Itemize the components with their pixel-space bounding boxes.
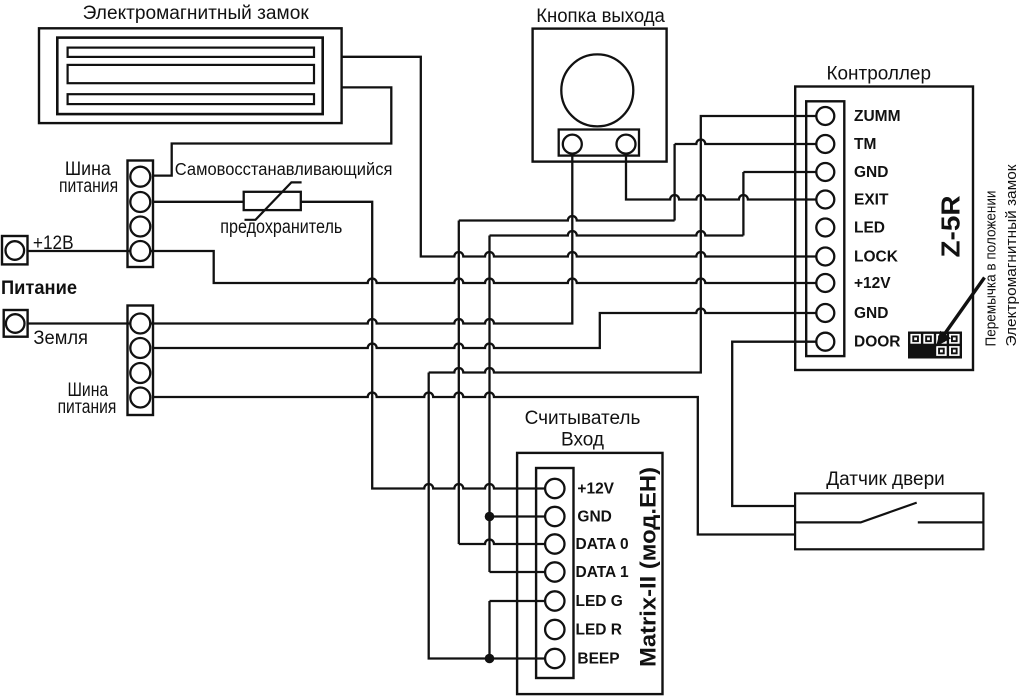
wire ZUMM to reader BEEP horizontal run: [429, 116, 825, 373]
wire reader LED G terminal row: [490, 600, 555, 602]
reader terminal DATA0 pin circle: [545, 534, 564, 553]
exit button SB1 box: [533, 29, 667, 162]
reader terminal LED G pin circle: [545, 591, 564, 610]
svg-text:Питание: Питание: [1, 278, 77, 299]
junction dot LED G/BEEP node: [485, 654, 495, 664]
controller terminal LED pin circle: [816, 219, 834, 237]
svg-text:Земля: Земля: [33, 328, 88, 349]
wire TM link vertical: [673, 144, 675, 221]
svg-text:BEEP: BEEP: [577, 651, 619, 668]
power strip 1 pin 2 circle: [130, 192, 150, 212]
wire TM feed row from DATA0: [459, 216, 675, 221]
electromagnetic lock Y1 coil bar 2: [68, 65, 314, 83]
svg-text:Z-5R: Z-5R: [936, 195, 966, 257]
controller terminal ZUMM pin circle: [816, 107, 834, 125]
wire GND upper link vertical: [742, 172, 744, 236]
wire DATA0 vertical: [458, 221, 460, 545]
+12V supply terminal square: [2, 236, 28, 264]
svg-text:Кнопка выхода: Кнопка выхода: [536, 6, 665, 27]
svg-text:предохранитель: предохранитель: [220, 217, 342, 238]
svg-text:TM: TM: [854, 136, 876, 153]
svg-text:DATA 1: DATA 1: [576, 564, 629, 581]
reader terminal LED R pin circle: [545, 620, 564, 639]
controller terminal GND pin circle: [816, 163, 834, 181]
fuse F1 self-resetting body: [244, 192, 301, 210]
svg-text:+12В: +12В: [33, 233, 74, 254]
controller terminal TM pin circle: [816, 135, 834, 153]
electromagnetic lock Y1 outer box: [39, 28, 342, 123]
reader terminal DATA1 pin circle: [545, 562, 564, 581]
ground supply pin circle: [6, 314, 25, 333]
jumper position arrow: [944, 278, 985, 336]
svg-text:Считыватель: Считыватель: [525, 408, 641, 429]
svg-text:Вход: Вход: [561, 430, 604, 451]
wire +12V supply through strip 1 pin 4 to controller +12V: [28, 251, 826, 283]
electromagnetic lock Y1 inner frame: [57, 38, 322, 115]
power strip 2 pin 3 circle: [130, 363, 150, 383]
wire power bus strip 1 pin 2 to fuse input: [153, 201, 244, 203]
svg-text:GND: GND: [854, 164, 888, 181]
svg-text:Датчик двери: Датчик двери: [826, 469, 945, 490]
wire ground bus line 1 to exit button left contact: [28, 144, 573, 323]
wire exit button right contact to EXIT terminal: [626, 144, 825, 199]
svg-text:питания: питания: [59, 176, 118, 197]
exit button SB1 actuator circle: [561, 54, 633, 126]
wire DATA1 terminal row: [490, 571, 555, 573]
svg-text:Matrix-II (мод.EH): Matrix-II (мод.EH): [636, 467, 661, 667]
svg-text:DOOR: DOOR: [854, 334, 901, 351]
reader terminal GND pin circle: [545, 507, 564, 526]
svg-text:Контроллер: Контроллер: [827, 64, 932, 85]
electromagnetic lock Y1 coil bar 3: [68, 94, 314, 104]
svg-text:EXIT: EXIT: [854, 192, 889, 209]
wire lock coil B to power bus strip 1 pin 1: [152, 87, 391, 175]
svg-text:Перемычка в положении: Перемычка в положении: [983, 191, 1000, 347]
svg-text:+12V: +12V: [854, 275, 891, 292]
svg-text:DATA 0: DATA 0: [576, 536, 629, 553]
power strip 2 pin 2 circle: [130, 338, 150, 358]
power bus terminal strip 2: [128, 306, 154, 416]
power strip 2 pin 4 circle: [130, 388, 150, 408]
svg-text:LED R: LED R: [576, 622, 623, 639]
wire LED G drop to BEEP row: [488, 601, 490, 659]
electromagnetic lock Y1 coil bar 1: [68, 48, 314, 57]
svg-text:LED G: LED G: [576, 593, 623, 610]
controller terminal GND2 pin circle: [816, 304, 834, 322]
wire ground bus line 4 to door sensor lower lead: [153, 393, 795, 535]
svg-text:+12V: +12V: [577, 481, 614, 498]
wire GND vertical to reader: [488, 236, 490, 573]
reader terminal strip rectangle: [536, 468, 573, 678]
wire ZUMM drop to BEEP terminal: [429, 373, 555, 659]
wire reader GND terminal row: [490, 515, 555, 517]
power strip 1 pin 1 circle: [130, 167, 150, 187]
fuse F1 diagonal stroke: [245, 182, 302, 219]
door sensor SM1 box: [795, 493, 983, 549]
jumper position arrowhead: [936, 331, 951, 347]
svg-text:ZUMM: ZUMM: [854, 108, 901, 125]
exit button left contact circle: [563, 135, 582, 154]
svg-text:Самовосстанавливающийся: Самовосстанавливающийся: [175, 159, 393, 179]
jumper block bottom row open cells: [936, 346, 947, 356]
junction dot GND/DATA1 node: [485, 512, 495, 522]
power strip 1 pin 4 circle: [130, 241, 150, 261]
power bus terminal strip 1: [128, 161, 154, 268]
jumper block pin holes: [914, 337, 956, 352]
svg-text:Электромагнитный замок: Электромагнитный замок: [1003, 164, 1020, 346]
ground supply terminal square: [4, 310, 28, 337]
reader terminal +12V pin circle: [545, 479, 564, 498]
power strip 1 pin 3 circle: [130, 217, 150, 237]
controller terminal LOCK pin circle: [816, 248, 834, 266]
svg-text:Электромагнитный замок: Электромагнитный замок: [83, 3, 310, 24]
+12V supply pin circle: [6, 241, 25, 260]
wire ground bus line 2 to controller GND lower: [153, 309, 825, 349]
exit button SB1 contact block: [559, 130, 639, 156]
wire controller GND upper terminal row: [743, 171, 825, 173]
wire GND feed row: [490, 231, 744, 236]
svg-text:GND: GND: [577, 509, 611, 526]
controller terminal strip rectangle: [806, 101, 844, 356]
svg-text:LED: LED: [854, 220, 885, 237]
jumper block pin squares: [912, 336, 957, 355]
exit button right contact circle: [617, 135, 636, 154]
controller terminal +12V pin circle: [816, 274, 834, 292]
jumper block top row open cells: [910, 334, 959, 356]
wire DOOR terminal to door sensor upper lead: [732, 342, 825, 506]
wire fuse output to reader +12V: [301, 202, 555, 489]
svg-text:LOCK: LOCK: [854, 249, 899, 266]
wire lock coil A to LOCK terminal: [342, 57, 825, 257]
reader terminal BEEP pin circle: [545, 649, 564, 668]
svg-text:GND: GND: [854, 305, 888, 322]
controller terminal EXIT pin circle: [816, 191, 834, 209]
reader Matrix-II box: [517, 453, 662, 694]
door sensor reed switch contact: [795, 503, 983, 523]
jumper block base: [908, 332, 962, 359]
controller terminal DOOR pin circle: [816, 333, 834, 351]
wire TM terminal row: [675, 140, 825, 145]
wire DATA0 terminal row: [459, 540, 555, 545]
svg-text:питания: питания: [58, 397, 117, 418]
power strip 2 pin 1 circle: [130, 314, 150, 334]
controller Z-5R box: [795, 87, 973, 371]
